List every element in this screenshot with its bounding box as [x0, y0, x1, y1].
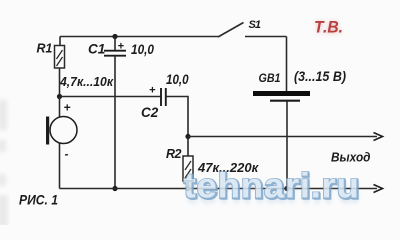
watermark tehnari.ru [184, 167, 362, 212]
svg-text:C2: C2 [141, 105, 159, 120]
svg-text:+: + [118, 41, 125, 53]
node C1 bottom [112, 186, 117, 191]
svg-text:R2: R2 [166, 147, 182, 161]
wire mid horizontal to C2 [60, 96, 162, 98]
wire battery top lead [286, 37, 288, 92]
node R2 bottom [185, 186, 190, 191]
svg-text:Выход: Выход [331, 150, 371, 165]
svg-text:РИС. 1: РИС. 1 [19, 192, 58, 208]
wire mic vertical [59, 97, 61, 189]
wire mid output rail [188, 136, 377, 138]
svg-text:10,0: 10,0 [131, 42, 154, 57]
wire R1 bottom lead [59, 68, 61, 97]
svg-text:4,7к...10к: 4,7к...10к [59, 74, 114, 89]
wire C2 right to corner [166, 97, 188, 137]
svg-text:tehnari.ru: tehnari.ru [184, 167, 360, 206]
switch S1 [218, 19, 287, 37]
svg-text:C1: C1 [88, 42, 105, 57]
svg-text:+: + [64, 101, 71, 115]
resistor R1 [37, 42, 65, 69]
node junction R1/mic/C2 [57, 94, 62, 99]
svg-text:Т.В.: Т.В. [314, 18, 343, 37]
svg-text:10,0: 10,0 [166, 72, 189, 87]
wire battery bottom lead [286, 102, 288, 189]
node battery bottom [284, 186, 289, 191]
svg-text:S1: S1 [249, 19, 262, 31]
arrow mid output [374, 133, 383, 141]
arrow bottom output [374, 185, 383, 193]
wire top rail [60, 36, 218, 38]
capacitor C1 [88, 34, 154, 189]
svg-text:+: + [149, 85, 156, 97]
svg-text:R1: R1 [37, 42, 53, 56]
microphone BM1 [46, 101, 77, 162]
resistor R2 [166, 137, 260, 189]
svg-text:GB1: GB1 [259, 71, 281, 85]
capacitor C2 [141, 72, 189, 120]
wire R1 top lead [59, 37, 61, 46]
wire bottom rail [60, 188, 378, 190]
battery GB1 [253, 69, 346, 101]
svg-text:-: - [65, 147, 69, 161]
scan artifacts left edge [0, 100, 8, 227]
node mid rail left [185, 134, 190, 139]
svg-text:(3...15 В): (3...15 В) [294, 69, 346, 84]
